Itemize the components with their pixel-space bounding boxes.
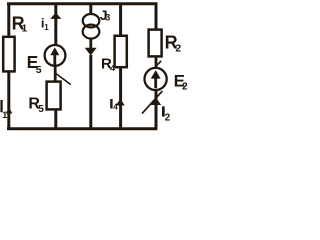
wire branch 2 lower (R5 to bottom bus) [54, 109, 57, 129]
strike mark across E5 lead [55, 73, 71, 85]
label I4 [110, 99, 118, 112]
wire branch 1 lower (R1 to bottom bus) [7, 71, 10, 129]
wire branch 2 upper (top bus to E5) [54, 3, 57, 46]
wire top bus [7, 2, 157, 5]
wire branch 2 middle (E5 to R5) [54, 66, 57, 82]
wire branch 5 upper (top bus to R2) [155, 3, 158, 31]
current source J3 (double circle) [83, 14, 100, 39]
strike mark across E2 lead [142, 91, 162, 114]
resistor R5 [47, 82, 61, 110]
svg-text:1: 1 [22, 23, 28, 34]
label I (left branch current) [0, 100, 2, 112]
label i1 [41, 16, 49, 33]
wire branch 3 lower (J3 to bottom bus) [89, 55, 92, 129]
svg-text:3: 3 [105, 13, 110, 23]
label E2 [174, 72, 188, 93]
svg-text:1: 1 [2, 110, 7, 120]
svg-text:5: 5 [38, 104, 44, 115]
svg-text:2: 2 [165, 112, 171, 123]
EMF source E5 (circle) [45, 45, 66, 66]
wire branch 1 upper (left side, top bus to R1) [7, 3, 10, 38]
wire branch 4 upper (top bus to R4) [119, 3, 122, 37]
wire branch 4 lower (R4 to bottom bus) [119, 66, 122, 129]
label E5 [27, 52, 42, 76]
wire branch 3 upper (top bus to J3) [89, 3, 92, 16]
svg-text:1: 1 [44, 23, 49, 32]
current arrow i1 (branch 2, pointing up) [50, 13, 61, 19]
svg-text:2: 2 [182, 81, 187, 93]
svg-text:2: 2 [175, 43, 181, 55]
label I2 [162, 106, 171, 123]
strike tick above E2 [156, 61, 161, 67]
label R5 [28, 96, 44, 115]
EMF source E2 (circle) [145, 68, 167, 90]
label J3 [100, 7, 110, 23]
EMF E2 arrow (inside circle, pointing up) [151, 70, 161, 88]
label R1 [12, 13, 28, 34]
svg-text:4: 4 [113, 103, 118, 112]
wire bottom bus [7, 127, 157, 130]
wire branch 5 middle (R2 to E2) [155, 56, 158, 69]
J3 current arrow (pointing down) [85, 39, 97, 56]
wire branch 5 lower (E2 to bottom bus) [155, 90, 158, 130]
current arrow i2 (branch 5, pointing up) [151, 97, 161, 105]
EMF E5 arrow (inside circle, pointing up) [50, 47, 59, 65]
resistor R2 [149, 30, 162, 57]
resistor R1 [3, 37, 14, 72]
resistor R4 [115, 36, 127, 67]
svg-text:4: 4 [110, 63, 115, 73]
label R4 [101, 56, 115, 74]
label subscript of left current [2, 110, 7, 120]
current arrow i4 (branch 4, pointing up) [116, 99, 125, 106]
current arrow (left branch, pointing up) [6, 108, 13, 114]
label R2 [165, 33, 182, 55]
svg-text:5: 5 [36, 64, 42, 76]
